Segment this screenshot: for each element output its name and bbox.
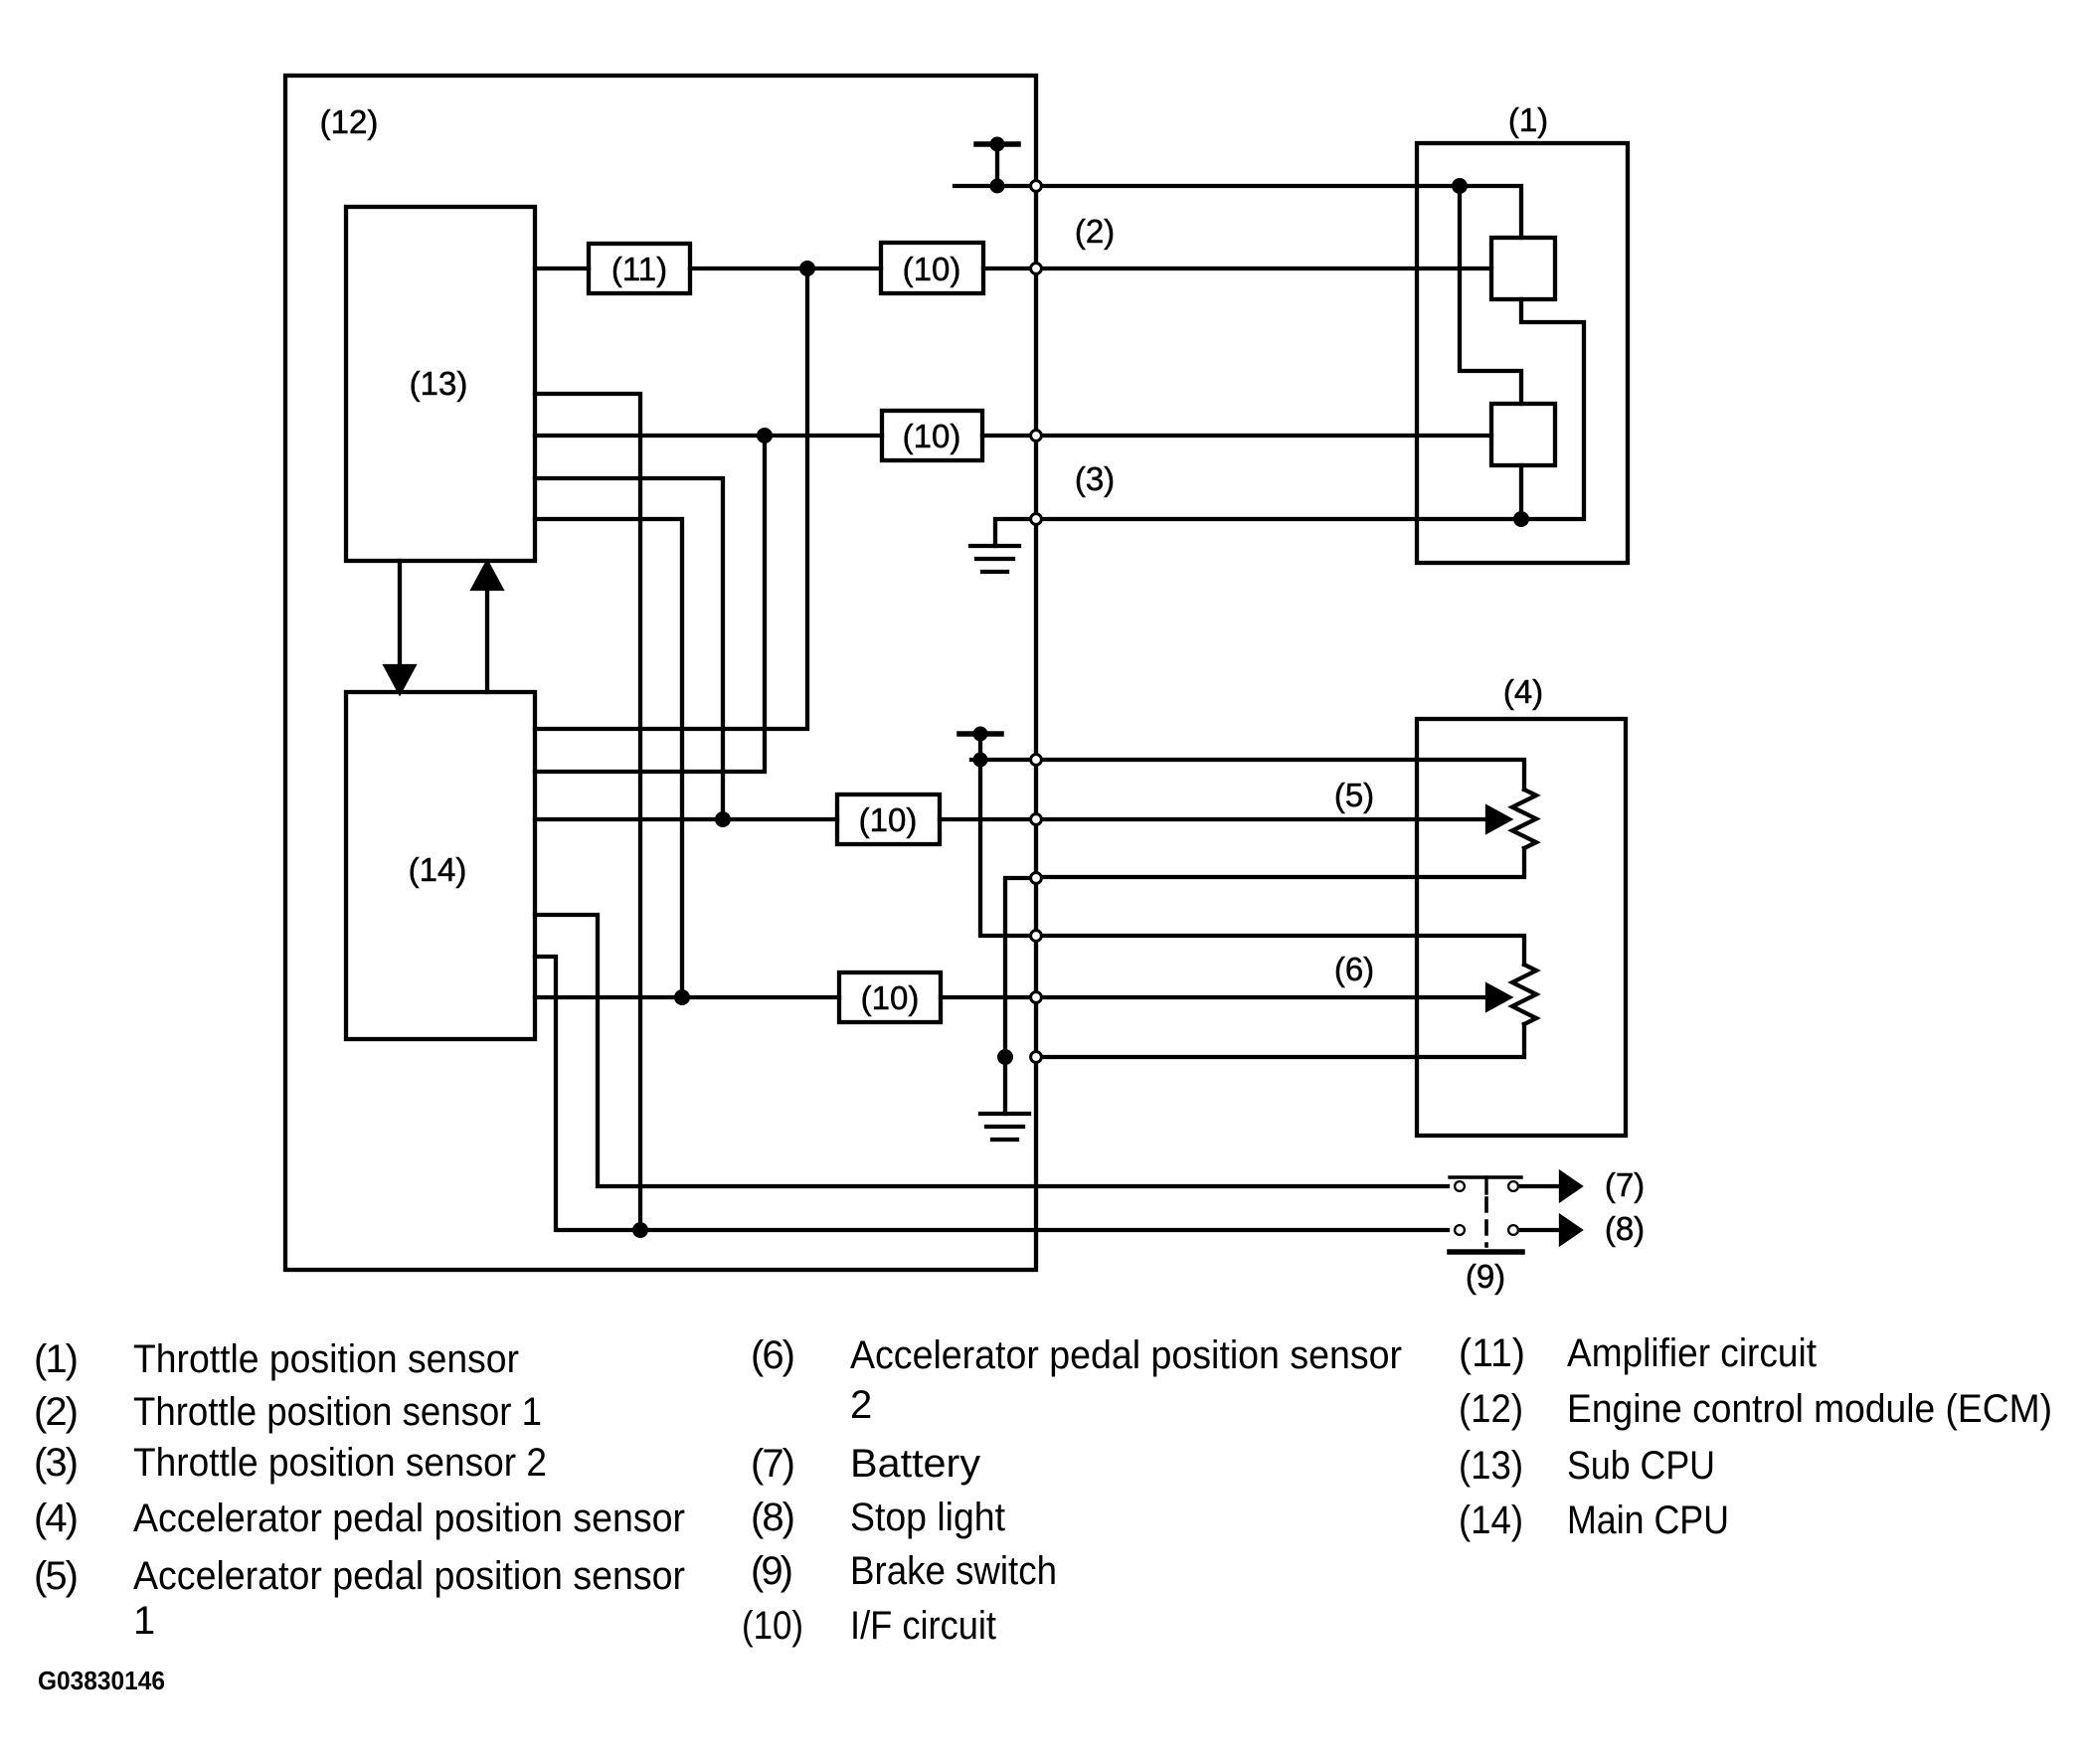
terminal node 6 [1031,992,1042,1003]
svg-text:(11): (11) [611,251,667,287]
wire TPS VCC to element 1 [1460,186,1521,238]
TPS element 2 square [1491,404,1555,465]
svg-text:(2): (2) [34,1390,79,1434]
brake switch S9 [1450,1177,1522,1252]
wire U10d to terminal 6 [941,995,1030,999]
wire U10b to terminal 3 [982,434,1030,438]
amplifier circuit box U11 [589,244,690,293]
wire U14 to battery switch (7) [535,915,1448,1186]
svg-text:(6): (6) [751,1333,795,1377]
wire U14 to stop light (8) [535,957,1448,1230]
junction dot TPS gnd [1513,511,1529,527]
arrow U13 to U14 (down) [386,561,414,692]
throttle position sensor box U1 [1417,143,1628,563]
svg-text:Battery: Battery [850,1442,980,1486]
wire vertical amplifier output to U14 [535,268,807,729]
ground symbol accel side [980,1057,1029,1140]
wire terminal 5 to R1 wiper [1042,817,1491,821]
svg-text:Engine control module (ECM): Engine control module (ECM) [1567,1387,2052,1431]
I/F circuit box U10b [882,411,982,460]
terminal node 5 [1031,814,1042,825]
svg-text:(10): (10) [903,418,961,454]
svg-text:(12): (12) [1459,1387,1523,1431]
svg-text:(3): (3) [34,1441,79,1485]
svg-text:(4): (4) [34,1497,79,1540]
svg-text:(8): (8) [751,1496,795,1539]
wire TPS gnd loop [1521,299,1584,519]
supply symbol top (battery feed) [976,137,1018,194]
svg-text:Accelerator pedal position sen: Accelerator pedal position sensor [133,1554,685,1598]
svg-text:(7): (7) [1605,1166,1645,1203]
I/F circuit box U10c [837,794,940,844]
legend column 1 [34,1337,685,1643]
svg-text:(3): (3) [1075,460,1115,497]
svg-text:Amplifier circuit: Amplifier circuit [1567,1331,1817,1375]
wire TPS VCC to element 2 [1460,186,1521,404]
svg-text:Throttle position sensor 1: Throttle position sensor 1 [133,1390,542,1434]
junction dot sig6 [674,989,690,1005]
svg-text:1: 1 [133,1599,155,1643]
svg-text:Accelerator pedal position sen: Accelerator pedal position sensor [133,1497,685,1540]
svg-text:Brake switch: Brake switch [850,1549,1057,1593]
svg-text:(9): (9) [1466,1258,1505,1295]
wire VCC throttle [955,184,1030,188]
supply symbol accel (battery feed) [959,727,1001,768]
junction dot sig5 [715,811,731,827]
wire vertical sig2 to U14 [535,436,765,772]
svg-text:I/F circuit: I/F circuit [850,1604,996,1648]
arrowhead R2 wiper [1487,985,1509,1009]
I/F circuit box U10a [881,243,983,293]
junction dot sig2 [757,428,773,443]
junction dot accel gnd [997,1049,1013,1065]
svg-text:(13): (13) [1459,1444,1523,1488]
junction dot stop light wire [632,1222,648,1238]
svg-text:G03830146: G03830146 [38,1666,165,1695]
svg-text:(1): (1) [34,1337,79,1381]
Sub CPU box U13 [346,207,535,561]
wire U11 to U10a [690,266,881,270]
terminal APS GND1 [1031,873,1042,884]
arrowhead R1 wiper [1487,807,1509,831]
wire R2 bottom to terminal [1042,1024,1524,1057]
junction dot amplifier output [799,261,815,276]
svg-text:2: 2 [850,1383,872,1427]
wire U10a to terminal 2 [983,266,1030,270]
wire U13 to U10d vertical [535,519,682,997]
wire terminal 3gnd to TPS [1042,517,1521,521]
wire terminal VCC to TPS [1042,184,1460,188]
terminal TPS GND [1031,514,1042,525]
svg-text:Stop light: Stop light [850,1496,1005,1539]
svg-text:(14): (14) [409,851,467,888]
TPS element 1 square [1491,238,1555,299]
ECM box U12 (Engine control module) [285,76,1036,1270]
wire terminal 2 to TPS1 element [1042,266,1491,270]
svg-text:(4): (4) [1503,673,1543,710]
I/F circuit box U10d [839,972,941,1022]
legend column 2 [742,1333,1402,1648]
wire vertical VCC accel to R2 top [980,760,1030,936]
resistor R2 (APS2) [1512,965,1536,1024]
svg-text:(1): (1) [1508,101,1548,138]
wire terminal VCC to APS R1 [1042,760,1524,790]
wire U13 stop lamp signal [535,394,640,1230]
Main CPU box U14 [346,692,535,1039]
arrowhead to battery (7) [1561,1173,1580,1199]
svg-text:(6): (6) [1334,951,1374,987]
terminal APS VCC2 [1031,931,1042,942]
svg-text:Main CPU: Main CPU [1567,1499,1729,1542]
svg-text:Accelerator pedal position sen: Accelerator pedal position sensor [850,1333,1402,1377]
svg-text:(7): (7) [751,1442,795,1486]
wire U14 sig5 to U10c [535,817,837,821]
wire U10c to terminal 5 [940,817,1030,821]
wire TPS element2 bottom [1519,465,1523,519]
wire U13 to U11 [535,266,589,270]
svg-text:(5): (5) [1334,777,1374,813]
resistor R1 (APS1) [1512,790,1536,848]
wire R1 bottom to gnd terminal [1042,848,1524,877]
svg-text:(2): (2) [1075,213,1115,250]
wire switch to battery arrow [1519,1184,1563,1188]
accelerator pedal position sensor box U4 [1417,719,1626,1136]
arrowhead to stop light (8) [1561,1217,1580,1243]
wire terminal R2 top to APS R2 [1042,936,1524,965]
svg-text:Throttle position sensor: Throttle position sensor [133,1337,519,1381]
wire terminal 6 to R2 wiper [1042,995,1491,999]
terminal node 3 [1031,431,1042,441]
wire gnd accel 1 [1005,878,1030,1057]
svg-text:Throttle position sensor 2: Throttle position sensor 2 [133,1441,547,1485]
wire VCC accel [971,758,1030,762]
bus terminal circles on ECM edge [1031,181,1042,1063]
svg-text:(10): (10) [861,979,920,1016]
terminal APS VCC [1031,755,1042,766]
svg-text:(11): (11) [1459,1331,1525,1375]
wire switch to stop light arrow [1519,1228,1563,1232]
wire U13 sig2 to U10b [535,434,882,438]
wire U13 to U10c vertical [535,478,723,819]
svg-text:(13): (13) [410,365,468,402]
svg-text:(8): (8) [1605,1210,1645,1247]
svg-text:(5): (5) [34,1554,79,1598]
wire terminal 3 to TPS2 element [1042,434,1491,438]
wire U14 sig6 to U10d [535,995,839,999]
svg-text:(9): (9) [751,1549,793,1593]
terminal APS GND2 [1031,1052,1042,1063]
svg-text:Sub CPU: Sub CPU [1567,1444,1715,1488]
svg-text:(10): (10) [742,1604,803,1648]
terminal node 2 [1031,264,1042,274]
legend column 3 [1459,1331,2052,1542]
arrow U14 to U13 (up) [473,563,501,692]
ground symbol throttle side [970,519,1030,572]
svg-text:(10): (10) [859,801,918,838]
svg-text:(12): (12) [320,103,379,140]
svg-text:(10): (10) [903,251,961,287]
terminal TPS VCC [1031,181,1042,192]
junction dot TPS VCC [1452,178,1468,194]
svg-text:(14): (14) [1459,1499,1523,1542]
